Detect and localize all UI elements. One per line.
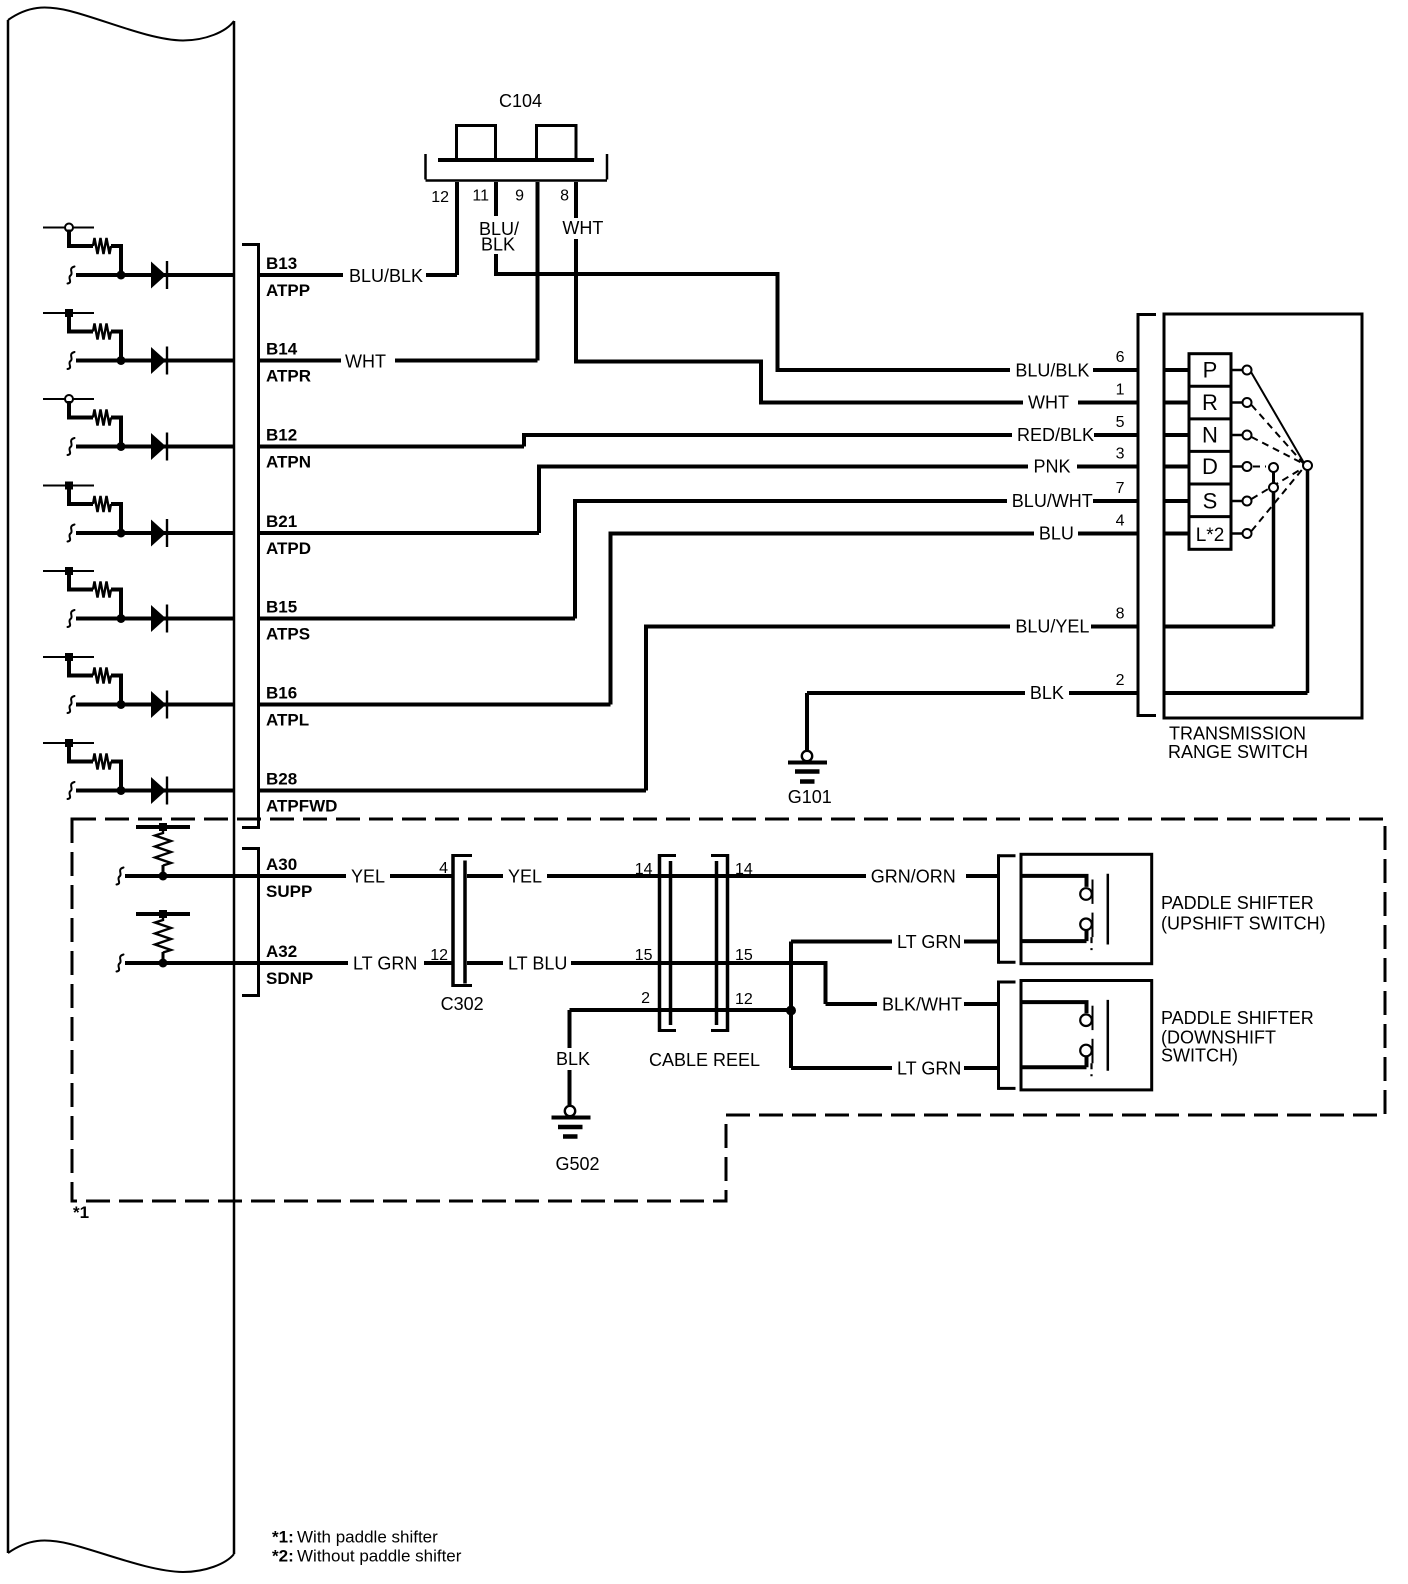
svg-text:*1:: *1: [272,1528,294,1547]
junction dot (B21) [117,529,126,538]
svg-text:BLU/BLK: BLU/BLK [349,266,423,286]
svg-text:ATPR: ATPR [266,367,311,386]
pull-up circuit for pin B16: supply rail stub [43,656,94,658]
wire color label RED/BLK [1012,428,1094,446]
pull-up resistor bar for A32 [136,912,190,916]
svg-text:14: 14 [735,861,753,878]
wire from resistor to junction (B12) [111,418,121,447]
svg-text:2: 2 [1116,672,1125,689]
svg-text:With paddle shifter: With paddle shifter [297,1528,438,1547]
resistor (B15 pull-up) [93,582,111,598]
wire from resistor to junction (B21) [111,504,121,533]
svg-text:BLK: BLK [481,235,515,255]
svg-text:4: 4 [439,860,448,877]
selector arm dashed stub at D [1253,466,1266,468]
wire resistor to junction (A32) [162,952,165,963]
wire color label BLU/BLK on pin 11 wire (two lines) [474,216,524,254]
wire LT BLU from C302 to cable reel pin 15 then down to BLK/WHT [467,963,826,1004]
svg-text:12: 12 [430,947,448,964]
svg-text:N: N [1202,423,1218,448]
svg-text:C302: C302 [441,994,484,1014]
connector C104 lock tab left [457,126,496,161]
switch wire into terminal S [1164,499,1189,503]
wire B16 riser to BLU row [611,534,1139,705]
svg-text:PADDLE SHIFTER: PADDLE SHIFTER [1161,893,1314,913]
svg-text:*2:: *2: [272,1547,294,1566]
node on supply stub (B28) [65,739,73,747]
wire B28 riser to BLU/YEL row [646,627,1138,791]
node on bar (A30) [159,823,167,831]
pin B21 wire outside module [259,531,539,535]
second pole contact upper [1269,463,1278,472]
wire color label WHT (B14) [341,352,395,376]
svg-text:1: 1 [1116,382,1125,399]
upper contact [1080,1014,1092,1026]
svg-text:C104: C104 [499,91,542,111]
ground symbol G101 [802,751,812,761]
junction dot (A30) [159,872,168,881]
svg-text:BLU: BLU [1039,524,1074,544]
wire color label BLU/WHT [1007,494,1093,512]
switch wire into terminal D [1164,465,1189,469]
wire BLK inside switch to pivot [1164,691,1308,695]
resistor (B13 pull-up) [93,238,111,254]
diode (B14 row) [151,347,166,374]
switch wire pin 1 side [1021,1056,1087,1067]
pull-up resistor bar for A30 [136,825,190,829]
selector arm dashed to S [1252,468,1304,499]
svg-text:B21: B21 [266,512,297,531]
diode (B28 row) [151,777,166,804]
wire color label BLK [1025,686,1069,704]
paddle shifter connector bracket [997,854,1000,963]
switch wire pin 2 side [1021,876,1087,887]
svg-text:R: R [1202,390,1218,415]
wire color label LT GRN (downshift) [892,1054,964,1082]
wire from resistor to junction (B28) [111,762,121,791]
svg-text:11: 11 [472,188,489,205]
svg-text:D: D [1202,454,1218,479]
wire break mark (A30) [117,868,124,885]
selector arm dashed to N [1252,437,1304,464]
switch wire pin 2 side [1021,1002,1087,1013]
node on supply stub (B15) [65,567,73,575]
svg-text:SDNP: SDNP [266,969,313,988]
wire BLU/YEL inside switch [1164,625,1274,629]
lower contact [1080,919,1092,931]
junction dot on pin 12 wire [786,1006,796,1016]
junction dot (B14) [117,356,126,365]
wire color label YEL (right of C302) [503,862,547,890]
wire color label BLK/WHT [877,990,964,1018]
node on supply stub (B16) [65,653,73,661]
svg-text:ATPL: ATPL [266,711,309,730]
actuator bar [1107,1000,1110,1071]
wire from resistor to junction (B16) [111,676,121,705]
wire color label BLU/YEL [1010,619,1091,637]
wire color label BLU [1034,526,1078,544]
junction dot (A32) [159,959,168,968]
paddle shifter connector bracket [997,981,1000,1090]
dashed option box *1 (with paddle shifter) [72,819,1385,1201]
svg-text:TRANSMISSION: TRANSMISSION [1169,724,1306,744]
wire cable reel pin 2 row with BLK drop to G502 [570,1008,792,1012]
contact stub and circle L*2 [1231,532,1242,535]
resistor (B14 pull-up) [93,324,111,340]
wire from resistor to junction (B14) [111,332,121,361]
svg-text:B14: B14 [266,340,298,359]
pull-up circuit for pin B12: supply rail stub [43,398,94,400]
svg-text:ATPD: ATPD [266,539,311,558]
svg-text:12: 12 [735,991,753,1008]
node on supply stub (B21) [65,482,73,490]
svg-text:PADDLE SHIFTER: PADDLE SHIFTER [1161,1008,1314,1028]
svg-text:8: 8 [1116,606,1125,623]
pin A32 wire [125,961,452,965]
svg-text:2: 2 [641,990,650,1007]
svg-text:S: S [1203,489,1218,514]
paddle shifter switch box [1021,854,1152,963]
internal wire to diode (B16) [76,703,233,707]
diode (B13 row) [151,262,166,289]
svg-text:G502: G502 [556,1154,600,1174]
svg-text:WHT: WHT [1028,393,1069,413]
diode (B16 row) [151,691,166,718]
actuator bar [1107,874,1110,945]
pull-up circuit for pin B14: supply rail stub [43,312,94,314]
junction dot (B28) [117,786,126,795]
svg-text:BLK: BLK [556,1049,590,1069]
wire from node to resistor (B21) [69,488,93,505]
transmission range switch connector bracket [1137,313,1140,717]
pull-up circuit for pin B15: supply rail stub [43,570,94,572]
wire BLK from G101 to switch pin 2 row [807,691,1138,695]
internal wire to diode (B15) [76,617,233,621]
wire color label WHT on pin 8 wire [557,218,607,239]
second pole contact lower [1269,483,1278,492]
contact stub and circle S [1231,500,1242,503]
movable contact dashes [1090,937,1092,950]
internal wire to diode (B14) [76,359,233,363]
pull-up circuit for pin B13: supply rail stub [43,227,94,229]
diode (B21 row) [151,520,166,547]
lower contact [1080,1045,1092,1057]
connector C104 lock tab right [537,126,577,161]
selector pivot contact [1303,461,1312,470]
svg-text:LT GRN: LT GRN [897,1059,961,1079]
svg-text:(UPSHIFT SWITCH): (UPSHIFT SWITCH) [1161,914,1326,934]
pin B12 wire outside module [259,445,524,449]
svg-text:G101: G101 [788,787,832,807]
contact stub and circle D [1231,465,1242,468]
contact stub and circle R [1231,401,1242,404]
svg-text:ATPS: ATPS [266,625,310,644]
svg-text:LT GRN: LT GRN [897,932,961,952]
svg-text:CABLE REEL: CABLE REEL [649,1050,760,1070]
switch wire into terminal P [1164,368,1189,372]
node on supply stub (B12) [65,395,73,403]
internal wire to diode (B21) [76,531,233,535]
C104 pin 9 wire down to B14 wire [536,182,540,361]
svg-text:A30: A30 [266,855,297,874]
wire break mark (A32) [117,955,124,972]
wire color label LT BLU [503,949,571,977]
svg-text:15: 15 [635,947,653,964]
wire break mark (B15) [68,610,75,627]
svg-text:YEL: YEL [351,867,385,887]
PCM/ECM module torn top edge [8,8,234,41]
wire color label LT GRN (A32) [348,949,424,977]
wire from resistor to junction (B15) [111,590,121,619]
svg-text:ATPFWD: ATPFWD [266,797,337,816]
C104 pin 12 wire down to B13 wire [455,182,459,275]
svg-text:7: 7 [1116,480,1125,497]
svg-text:LT GRN: LT GRN [353,954,417,974]
svg-text:(DOWNSHIFT: (DOWNSHIFT [1161,1028,1276,1048]
svg-text:BLK/WHT: BLK/WHT [882,995,962,1015]
wire break mark (B21) [68,525,75,542]
wire YEL from C302 to cable reel pin 14 [467,874,997,878]
contact stub and circle P [1231,369,1242,372]
wire from node to resistor (B28) [69,745,93,762]
junction dot (B13) [117,271,126,280]
svg-text:ATPN: ATPN [266,453,311,472]
movable contact dashes [1090,1063,1092,1076]
svg-text:9: 9 [515,188,524,205]
svg-text:A32: A32 [266,942,297,961]
pin B16 wire outside module [259,703,611,707]
svg-text:RANGE SWITCH: RANGE SWITCH [1168,742,1308,762]
wire color label WHT [1023,395,1078,413]
pull-up circuit for pin B21: supply rail stub [43,485,94,487]
switch wire into terminal R [1164,401,1189,405]
svg-text:14: 14 [635,861,653,878]
cable reel connector left half [658,854,662,1032]
upper contact [1080,888,1092,900]
wire color label BLU/BLK [1010,363,1093,381]
switch wire into terminal N [1164,433,1189,437]
wire break mark (B28) [68,782,75,799]
svg-text:12: 12 [431,189,449,206]
svg-text:SWITCH): SWITCH) [1161,1046,1238,1066]
paddle shifter switch box [1021,981,1152,1090]
C104 pin 8 wire: down, right, down to switch pin 1 row [576,182,1138,403]
wire color label YEL (A30) [346,862,390,890]
LT GRN common vertical [789,942,793,1069]
switch wire into terminal L*2 [1164,532,1189,536]
svg-text:ATPP: ATPP [266,281,310,300]
svg-text:6: 6 [1116,349,1125,366]
wire from node to resistor (B13) [69,230,93,247]
wire B21 riser to PNK row [539,467,1138,534]
pull-up circuit for pin B28: supply rail stub [43,742,94,744]
connector C302 pin side [463,861,467,984]
connector C104 body bar [438,158,594,162]
connector C104 shell bracket [424,154,427,180]
svg-text:GRN/ORN: GRN/ORN [871,867,956,887]
junction dot (B15) [117,614,126,623]
svg-text:RED/BLK: RED/BLK [1017,425,1094,445]
resistor (B21 pull-up) [93,496,111,512]
wire from resistor to junction (B13) [111,246,121,275]
contact stub and circle N [1231,434,1242,437]
svg-text:8: 8 [560,188,569,205]
svg-text:LT BLU: LT BLU [508,954,567,974]
resistor (B28 pull-up) [93,754,111,770]
transmission range switch box [1164,314,1362,718]
wire from node to resistor (B16) [69,659,93,676]
node on supply stub (B14) [65,309,73,317]
wire LT GRN to downshift pin 1 [791,1066,997,1070]
cable reel connector right half [726,854,730,1032]
svg-text:BLU/BLK: BLU/BLK [1015,361,1089,381]
svg-text:3: 3 [1116,446,1125,463]
svg-text:B15: B15 [266,598,297,617]
svg-text:SUPP: SUPP [266,882,312,901]
wire from node to resistor (B15) [69,573,93,590]
svg-text:YEL: YEL [508,867,542,887]
pin B14 wire outside module [259,359,538,363]
pin B13 wire outside module [259,273,457,277]
wire from node to resistor (B12) [69,401,93,418]
svg-text:PNK: PNK [1034,457,1071,477]
wire color label BLU/BLK (B13) [343,267,426,291]
diode (B12 row) [151,433,166,460]
node on supply stub (B13) [65,224,73,232]
wire color label PNK [1028,459,1077,477]
PCM/ECM module outline right edge [233,21,236,1554]
C104 pin 11 wire: down, right, down to switch pin 6 row [496,182,1138,370]
junction dot (B12) [117,442,126,451]
internal wire to diode (B12) [76,445,233,449]
internal wire to diode (B28) [76,789,233,793]
internal wire to diode (B13) [76,273,233,277]
svg-text:B13: B13 [266,254,297,273]
wire break mark (B14) [68,352,75,369]
pin B28 wire outside module [259,789,646,793]
wire BLK/WHT to downshift pin 2 [826,1002,998,1006]
resistor (B12 pull-up) [93,410,111,426]
wire break mark (B16) [68,696,75,713]
ground symbol G502 [565,1106,575,1116]
wire color label LT GRN (upshift) [892,928,964,956]
svg-text:BLK: BLK [1030,683,1064,703]
wire B15 riser to BLU/WHT row [575,501,1138,619]
svg-text:L*2: L*2 [1196,525,1225,546]
svg-text:4: 4 [1116,513,1125,530]
connector C302 bracket [451,854,455,987]
svg-text:WHT: WHT [345,352,386,372]
pin B15 wire outside module [259,617,575,621]
wire LT GRN to upshift pin 1 [791,940,997,944]
wire color label GRN/ORN [866,862,966,890]
svg-text:Without paddle shifter: Without paddle shifter [297,1547,462,1566]
resistor (A30) [155,829,171,866]
wire B12 jog up to RED/BLK row [524,435,1138,447]
PCM A-connector bracket [257,847,260,997]
svg-text:*1: *1 [73,1203,89,1222]
junction dot (B16) [117,700,126,709]
PCM/ECM module outline left edge [7,20,10,1553]
selector arm dashed to R [1252,405,1304,463]
PCM B-connector bracket [257,243,260,829]
pin A30 wire [125,874,452,878]
wire color label BLK (G502 drop) [551,1048,595,1070]
switch wire pin 1 side [1021,930,1087,941]
svg-text:BLU/YEL: BLU/YEL [1015,617,1089,637]
svg-text:B12: B12 [266,426,297,445]
resistor (A32) [155,916,171,953]
switch terminal cell column [1189,354,1231,550]
selector arm dashed to L*2 [1252,469,1304,532]
wire from node to resistor (B14) [69,315,93,332]
node on bar (A32) [159,910,167,918]
wire break mark (B13) [68,267,75,284]
svg-text:BLU/WHT: BLU/WHT [1012,491,1093,511]
resistor (B16 pull-up) [93,668,111,684]
wire break mark (B12) [68,438,75,455]
diode (B15 row) [151,605,166,632]
svg-text:P: P [1203,358,1218,383]
selector arm solid to P [1251,372,1304,463]
second pole link bar [1272,472,1275,483]
svg-text:5: 5 [1116,414,1125,431]
svg-text:B16: B16 [266,684,297,703]
svg-text:WHT: WHT [562,218,603,238]
wire resistor to junction (A30) [162,865,165,876]
svg-text:B28: B28 [266,770,297,789]
svg-text:15: 15 [735,947,753,964]
PCM/ECM module torn bottom edge [8,1541,234,1572]
